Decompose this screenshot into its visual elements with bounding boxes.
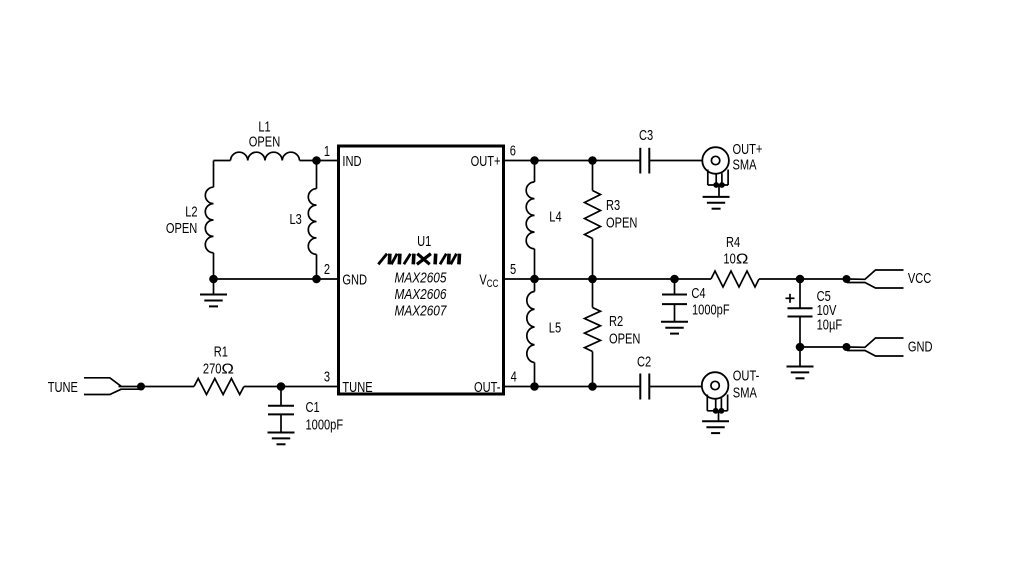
inductor L4 <box>526 161 534 280</box>
wire: pin 4 rail to C2 <box>504 386 641 388</box>
MAXIM logo <box>378 254 459 265</box>
ground symbol below C4 <box>661 322 688 334</box>
svg-text:5: 5 <box>510 260 516 277</box>
junction node at L4 bottom <box>530 275 539 284</box>
ground stem below C5 <box>799 347 801 367</box>
svg-text:2: 2 <box>324 260 330 277</box>
wire: node down to C1 <box>280 387 282 406</box>
resistor R1 <box>194 379 244 395</box>
resistor R2 <box>585 279 601 387</box>
ground stem below L2 node <box>213 279 215 295</box>
op-amp / IC body U1 <box>339 146 504 394</box>
junction node at R3 top <box>588 156 597 165</box>
wire: C5 to ground row <box>799 317 801 348</box>
junction node at C1 <box>277 382 286 391</box>
capacitor C4 <box>662 295 687 305</box>
wire: node down to C4 <box>674 279 676 295</box>
wire: C1 to ground <box>280 414 282 432</box>
wire: ground row to pin 2 of U1 <box>214 278 339 280</box>
svg-text:Ω: Ω <box>221 361 234 377</box>
svg-text:SMA: SMA <box>733 384 757 401</box>
GND connector <box>847 338 904 356</box>
junction node at GND connector <box>843 343 851 351</box>
junction node at VCC connector <box>843 275 851 283</box>
wire: top-left rail from L2 corner to L1 <box>214 160 231 162</box>
svg-text:TUNE: TUNE <box>48 378 78 395</box>
wire: R1 to pin 3 of U1 <box>244 386 338 388</box>
svg-text:OUT-: OUT- <box>474 378 501 395</box>
svg-text:6: 6 <box>510 142 516 159</box>
wire: C3 to OUT+ SMA <box>649 160 702 162</box>
capacitor C2 <box>640 374 649 400</box>
svg-text:TUNE: TUNE <box>342 378 372 395</box>
svg-text:SMA: SMA <box>733 156 757 173</box>
junction node at L4 top <box>530 156 539 165</box>
svg-text:C1: C1 <box>306 398 320 415</box>
wire: node 1 to pin 1 of U1 <box>317 160 339 162</box>
VCC connector <box>847 270 904 288</box>
wire: pin 6 rail to C3 <box>504 160 641 162</box>
capacitor C5 <box>788 308 813 316</box>
junction node at R3 bottom <box>588 275 597 284</box>
junction node at C5 top <box>796 275 805 284</box>
svg-text:MAX2606: MAX2606 <box>395 286 447 303</box>
wire: ground row to GND connector <box>800 346 847 348</box>
junction node at C4 <box>670 275 679 284</box>
svg-text:OPEN: OPEN <box>606 214 637 231</box>
wire: TUNE connector to R1 <box>119 386 195 388</box>
svg-text:270: 270 <box>203 360 222 377</box>
junction node at C5 bottom <box>796 343 805 352</box>
svg-text:OPEN: OPEN <box>166 219 197 236</box>
svg-text:MAX2605: MAX2605 <box>395 269 447 286</box>
svg-text:VCC: VCC <box>908 270 932 287</box>
wire: L3 upper stub <box>316 161 318 189</box>
resistor R3 <box>585 161 601 280</box>
svg-text:R4: R4 <box>726 233 740 250</box>
wire: pin 5 rail to R4 <box>504 278 712 280</box>
junction node at pin 2 <box>312 275 321 284</box>
wire: C2 to OUT- SMA <box>649 386 702 388</box>
wire: L3 lower stub <box>316 254 318 279</box>
svg-text:10µF: 10µF <box>817 316 843 333</box>
capacitor C5 polarity plus sign <box>786 294 795 303</box>
svg-text:OUT-: OUT- <box>733 367 760 384</box>
svg-text:10: 10 <box>723 250 735 267</box>
svg-text:1000pF: 1000pF <box>692 301 730 318</box>
svg-text:R1: R1 <box>214 343 228 360</box>
svg-text:1000pF: 1000pF <box>306 416 344 433</box>
inductor L1 <box>231 152 300 160</box>
junction node at left ground corner <box>209 275 218 284</box>
svg-text:R3: R3 <box>606 196 620 213</box>
inductor L2 <box>205 187 213 253</box>
svg-text:VCC: VCC <box>479 271 498 290</box>
svg-text:L2: L2 <box>185 203 197 220</box>
junction node at R2 bottom <box>588 382 597 391</box>
svg-text:IND: IND <box>342 152 361 169</box>
ground symbol below L2 node <box>200 295 227 307</box>
svg-text:C3: C3 <box>639 126 653 143</box>
junction node at L5 bottom <box>530 382 539 391</box>
svg-text:L4: L4 <box>549 208 561 225</box>
resistor R4 <box>711 271 759 287</box>
junction node at TUNE input <box>137 383 145 391</box>
svg-text:R2: R2 <box>609 312 623 329</box>
inductor L5 <box>527 279 535 387</box>
inductor L3 <box>308 189 316 255</box>
SMA connector OUT- <box>702 372 729 433</box>
svg-text:3: 3 <box>324 368 330 385</box>
svg-text:L3: L3 <box>290 210 302 227</box>
wire: L1 to node 1 <box>300 160 317 162</box>
ground symbol below C1 <box>268 433 295 445</box>
svg-text:L5: L5 <box>549 319 561 336</box>
svg-text:4: 4 <box>511 368 517 385</box>
svg-text:Ω: Ω <box>736 251 749 267</box>
wire: left vertical lower segment <box>213 253 215 279</box>
wire: R4 to VCC connector <box>759 278 847 280</box>
svg-text:GND: GND <box>908 338 933 355</box>
svg-text:OPEN: OPEN <box>609 330 640 347</box>
svg-text:MAX2607: MAX2607 <box>395 302 447 319</box>
svg-text:C2: C2 <box>637 353 651 370</box>
wire: C4 to ground <box>674 304 676 322</box>
SMA connector OUT+ <box>702 147 729 209</box>
TUNE input connector <box>84 378 140 395</box>
ground symbol below C5 <box>787 367 814 379</box>
svg-text:OUT+: OUT+ <box>471 152 501 169</box>
junction node at pin 1 <box>312 156 321 165</box>
capacitor C1 <box>268 406 294 415</box>
svg-text:U1: U1 <box>417 232 431 249</box>
svg-text:1: 1 <box>324 142 330 159</box>
wire: left vertical upper segment <box>213 161 215 188</box>
svg-text:OPEN: OPEN <box>249 133 280 150</box>
svg-text:GND: GND <box>342 271 367 288</box>
wire: node down to C5 <box>799 279 801 308</box>
svg-text:C4: C4 <box>691 284 705 301</box>
capacitor C3 <box>640 148 649 174</box>
